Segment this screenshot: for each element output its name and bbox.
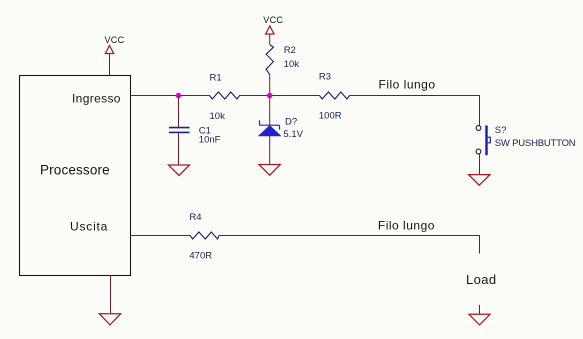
- wire D to ground: [269, 136, 271, 165]
- ground (under switch): [469, 175, 490, 186]
- processor box: [20, 76, 131, 276]
- svg-text:10nF: 10nF: [199, 134, 221, 145]
- svg-text:R1: R1: [210, 72, 222, 83]
- switch S? pushbutton: [476, 125, 490, 155]
- junction node C1 tap: [176, 93, 182, 99]
- resistor R4: [190, 232, 219, 239]
- svg-text:5.1V: 5.1V: [283, 129, 303, 140]
- capacitor C1: [169, 128, 190, 133]
- wire switch to ground: [479, 154, 481, 175]
- wire node to D: [269, 96, 271, 126]
- svg-text:470R: 470R: [189, 250, 212, 261]
- svg-text:Filo lungo: Filo lungo: [379, 78, 436, 92]
- power VCC symbol (above R2): [266, 26, 274, 34]
- junction node R2/D tap: [267, 93, 273, 99]
- svg-text:Load: Load: [466, 272, 497, 287]
- wire VCC to box top: [109, 54, 111, 76]
- wire C1 to ground: [178, 133, 180, 165]
- svg-text:Processore: Processore: [40, 163, 110, 178]
- svg-text:Filo lungo: Filo lungo: [378, 218, 435, 232]
- ground pin stub (bottom right): [479, 305, 481, 314]
- svg-text:10k: 10k: [210, 111, 226, 122]
- svg-text:10k: 10k: [284, 59, 300, 70]
- resistor R3: [320, 92, 350, 99]
- svg-text:Uscita: Uscita: [70, 219, 108, 233]
- zener diode D?: [259, 120, 280, 136]
- svg-text:S?: S?: [495, 125, 507, 136]
- wire box bottom to ground: [110, 275, 112, 314]
- resistor R2 (vertical): [266, 45, 273, 75]
- ground (bottom right): [469, 314, 490, 325]
- ground (under box): [99, 314, 120, 325]
- wire R2 to node: [269, 75, 271, 96]
- wire Uscita net (box to load corner): [130, 236, 480, 254]
- svg-text:VCC: VCC: [263, 15, 283, 25]
- wire Ingresso net (box to switch corner): [130, 96, 480, 126]
- svg-text:100R: 100R: [319, 110, 342, 121]
- svg-text:R3: R3: [319, 71, 331, 82]
- wire node to C1: [178, 96, 180, 128]
- svg-text:D?: D?: [285, 116, 297, 127]
- svg-text:VCC: VCC: [105, 35, 125, 45]
- power VCC symbol (above box): [105, 46, 113, 54]
- svg-text:Ingresso: Ingresso: [72, 91, 121, 105]
- svg-text:R4: R4: [189, 212, 201, 223]
- svg-text:R2: R2: [284, 45, 296, 56]
- svg-text:SW PUSHBUTTON: SW PUSHBUTTON: [495, 138, 576, 149]
- ground (under D?): [259, 165, 280, 176]
- wire VCC to R2: [269, 34, 271, 45]
- ground (under C1): [169, 165, 190, 176]
- resistor R1: [210, 92, 240, 99]
